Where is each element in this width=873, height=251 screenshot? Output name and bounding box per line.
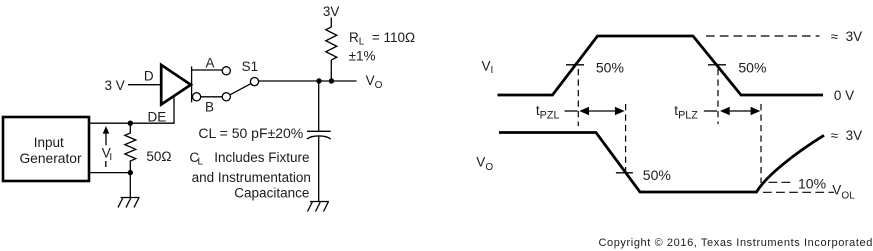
wire capacitor to ground [318, 136, 320, 202]
wire top from generator to DE [89, 122, 174, 124]
capacitor CL top plate [307, 130, 331, 132]
wire VO node to capacitor [318, 81, 320, 131]
wire DE vertical [173, 96, 175, 124]
wire S1 to VO node [259, 80, 357, 82]
svg-text:DE: DE [148, 110, 167, 125]
contact A circle [222, 67, 230, 75]
switch S1 blade [230, 84, 251, 95]
switch S1 pole circle [250, 78, 258, 86]
svg-text:10%: 10% [798, 175, 826, 191]
tPZL arrow [579, 107, 624, 115]
node junction bottom of R1 [128, 170, 133, 175]
tick 50 percent falling [708, 64, 726, 66]
svg-text:50%: 50% [643, 167, 671, 183]
svg-text:≈ 3V: ≈ 3V [831, 128, 862, 143]
input generator box [3, 117, 89, 181]
waveform VO trace [499, 133, 824, 193]
wire RL to VO node [330, 60, 332, 81]
svg-text:50Ω: 50Ω [146, 149, 171, 164]
dashed marker tPLZ right [760, 104, 762, 183]
contact B circle [222, 93, 230, 101]
node junction dot right [329, 78, 334, 83]
svg-text:B: B [205, 100, 214, 115]
dashed marker tPZL right [625, 104, 627, 175]
wire 3V to buffer [128, 84, 161, 86]
resistor R1 50ohm [125, 123, 136, 172]
svg-text:3 V: 3 V [105, 78, 125, 93]
svg-text:0 V: 0 V [834, 88, 854, 103]
tPLZ arrow [720, 107, 760, 115]
svg-text:A: A [206, 56, 215, 71]
svg-text:CL Includes Fixture: CL Includes Fixture [189, 150, 309, 168]
buffer U1 triangle [161, 65, 191, 105]
node junction top of R1 [128, 121, 133, 126]
svg-text:CL = 50 pF±20%: CL = 50 pF±20% [198, 125, 303, 141]
svg-text:3V: 3V [323, 4, 340, 19]
ground chassis left [118, 198, 140, 208]
node junction dot left [316, 78, 321, 83]
capacitor CL bottom plate [307, 136, 331, 139]
inverting bubble [193, 93, 201, 101]
svg-text:VI: VI [102, 145, 112, 163]
tPZL leader line [565, 110, 578, 112]
waveform VI trace [498, 36, 824, 95]
tPLZ leader line [704, 110, 717, 112]
tick 50 percent rising [566, 64, 584, 66]
wire 3V to RL [330, 18, 332, 28]
resistor RL 110ohm [326, 27, 337, 60]
svg-text:50%: 50% [738, 59, 766, 75]
dashed marker tPZL left [577, 69, 579, 126]
ground chassis right [308, 202, 329, 212]
svg-text:≈ 3V: ≈ 3V [831, 29, 862, 44]
svg-text:D: D [144, 68, 154, 83]
dashed VOL level line [763, 191, 834, 193]
svg-text:S1: S1 [242, 59, 259, 74]
svg-text:Capacitance: Capacitance [234, 186, 309, 201]
svg-text:and Instrumentation: and Instrumentation [192, 170, 311, 185]
svg-text:Generator: Generator [19, 151, 82, 166]
dashed 10 percent line [769, 181, 793, 183]
VI dashed tail [105, 161, 107, 167]
dashed 3V level line [706, 35, 820, 37]
output bar [191, 66, 193, 102]
wire bottom from generator [89, 172, 130, 174]
wire to contact A [192, 69, 223, 71]
wire to contact B [201, 96, 223, 98]
VI measurement arrow [103, 126, 110, 145]
wire to ground [129, 173, 131, 198]
tick 50 percent VO [616, 172, 633, 174]
svg-text:Copyright © 2016, Texas Instru: Copyright © 2016, Texas Instruments Inco… [598, 237, 873, 249]
svg-text:Input: Input [34, 135, 64, 150]
dashed marker tPLZ left [717, 69, 719, 124]
svg-text:50%: 50% [596, 59, 624, 75]
svg-text:±1%: ±1% [349, 49, 376, 64]
